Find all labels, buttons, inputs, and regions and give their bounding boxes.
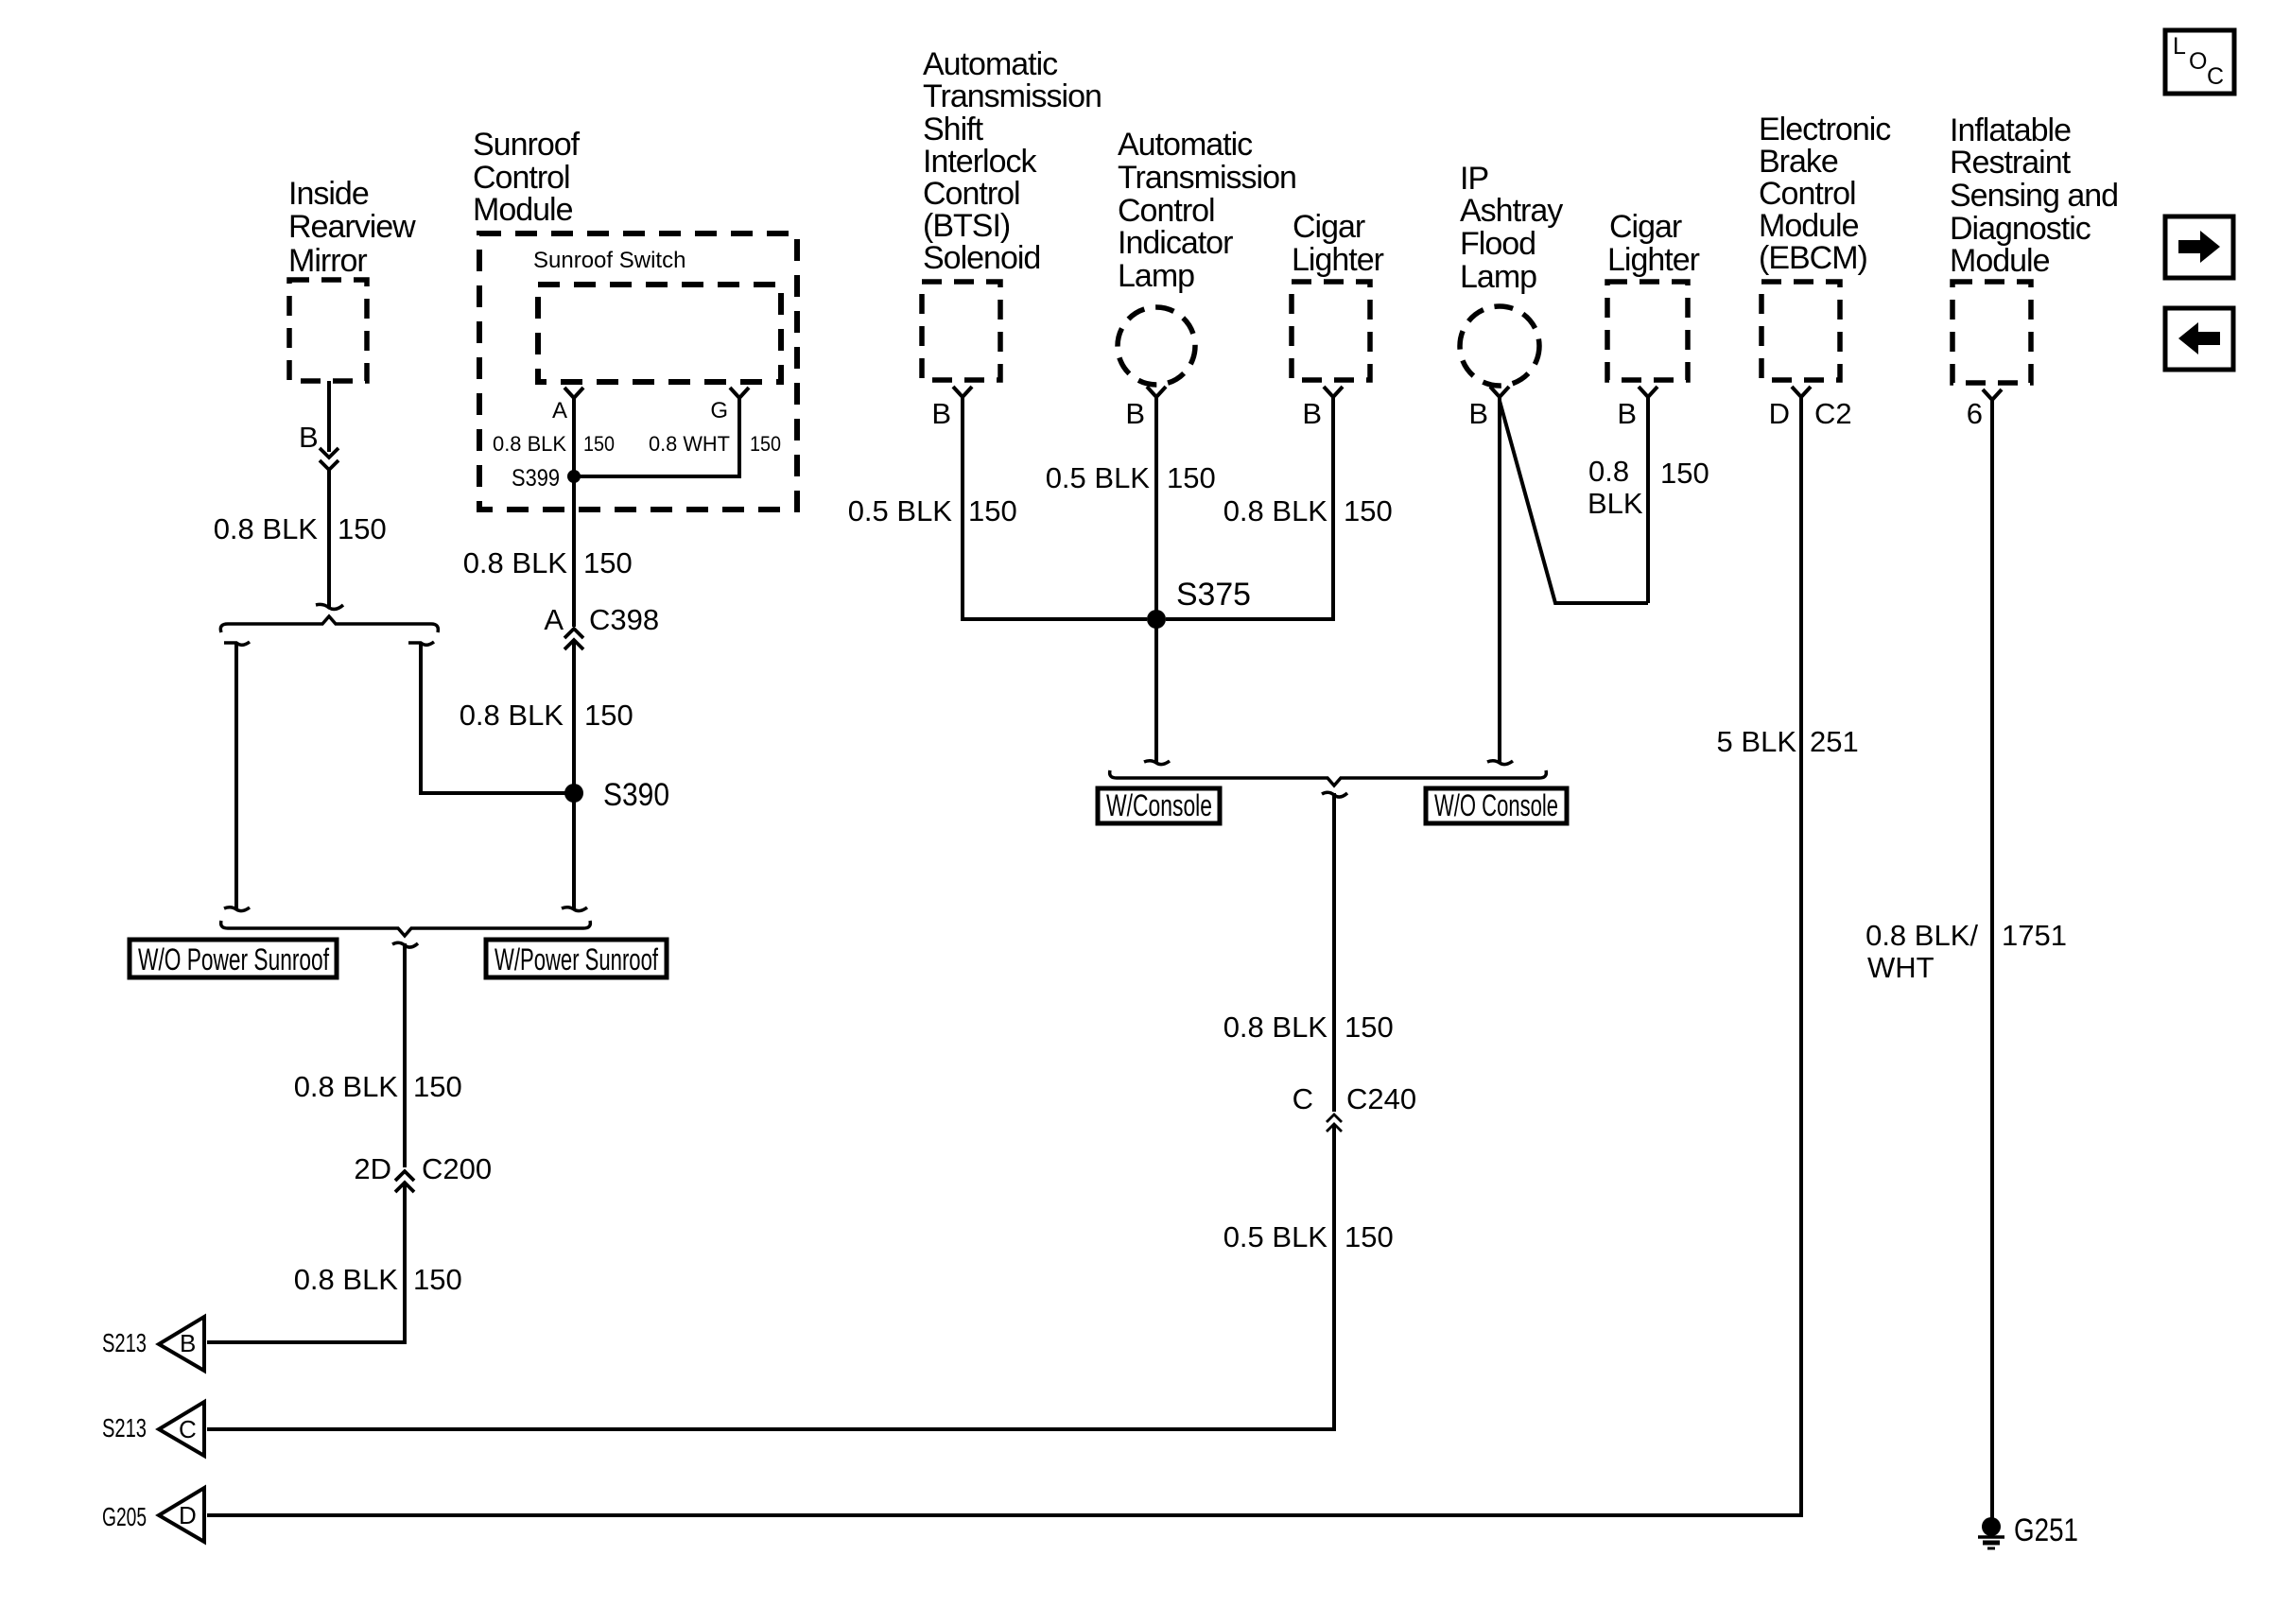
wire flood lamp down to console brace — [1487, 397, 1513, 765]
pin G (sunroof switch) — [710, 388, 749, 423]
wire label 5 BLK 251 — [1717, 725, 1859, 758]
svg-text:Inside: Inside — [288, 176, 369, 212]
svg-text:Sensing and: Sensing and — [1950, 178, 2118, 214]
svg-text:S375: S375 — [1176, 577, 1251, 613]
svg-text:Lamp: Lamp — [1118, 258, 1194, 294]
svg-text:0.8 BLK: 0.8 BLK — [294, 1263, 399, 1296]
wire diagonal from flood lamp pin to cigar2 wire — [1500, 401, 1648, 603]
svg-text:C: C — [179, 1415, 197, 1443]
svg-text:0.8 BLK: 0.8 BLK — [1223, 494, 1328, 527]
svg-text:Control: Control — [1118, 193, 1215, 229]
option label W/O Power Sunroof — [130, 940, 337, 977]
svg-text:O: O — [2189, 48, 2207, 75]
svg-text:0.8: 0.8 — [1588, 455, 1629, 488]
wire label 0.5 BLK 150 (lamp) — [1046, 461, 1216, 494]
svg-text:5 BLK: 5 BLK — [1717, 725, 1797, 758]
wire 0.8 BLK from pin A — [493, 398, 615, 510]
wire label 0.8 BLK 150 — [294, 1070, 462, 1103]
svg-text:Transmission: Transmission — [923, 78, 1102, 114]
wire label 0.8 BLK 150 — [294, 1263, 462, 1296]
svg-text:0.8 BLK/: 0.8 BLK/ — [1865, 919, 1978, 952]
connector C398 — [544, 603, 659, 649]
svg-text:A: A — [552, 398, 567, 423]
wire left branch (W/O Power Sunroof) — [224, 642, 250, 911]
component Automatic Transmission Control Indicator Lamp — [1118, 127, 1296, 385]
wire label 0.8 BLK 150 (above S390) — [460, 699, 633, 732]
svg-text:Sunroof Switch: Sunroof Switch — [533, 248, 685, 273]
svg-text:150: 150 — [413, 1070, 462, 1103]
ground G251 — [1978, 1512, 2078, 1548]
svg-text:150: 150 — [583, 546, 633, 579]
component Sunroof Switch — [533, 248, 781, 382]
svg-text:Lighter: Lighter — [1292, 242, 1384, 278]
svg-text:251: 251 — [1810, 725, 1859, 758]
wire label 0.8 BLK 150 — [1223, 1011, 1394, 1044]
svg-text:L: L — [2173, 33, 2186, 60]
svg-text:D: D — [1769, 397, 1790, 430]
wire label 0.8 BLK 150 (mirror) — [214, 512, 387, 545]
svg-text:0.8 BLK: 0.8 BLK — [493, 432, 566, 456]
svg-text:C: C — [1293, 1082, 1313, 1115]
svg-text:B: B — [180, 1329, 196, 1357]
wire cigar1 to S375 — [1166, 397, 1333, 619]
svg-text:C398: C398 — [589, 603, 659, 636]
svg-text:Automatic: Automatic — [1118, 127, 1253, 163]
off-page connector arrow (mirror B) — [320, 448, 338, 470]
pin D C2 (EBCM) — [1769, 387, 1852, 430]
svg-text:Transmission: Transmission — [1118, 160, 1296, 196]
svg-text:C200: C200 — [422, 1152, 492, 1185]
svg-text:C2: C2 — [1814, 397, 1852, 430]
wire right branch (to S390) — [408, 642, 572, 793]
wire from C398 to S390 and below — [562, 640, 587, 911]
svg-text:0.8 BLK: 0.8 BLK — [1223, 1011, 1328, 1044]
svg-text:150: 150 — [750, 432, 781, 456]
wire 0.8 WHT from pin G — [578, 398, 781, 476]
component Inflatable Restraint Sensing and Diagnostic Module — [1950, 112, 2118, 383]
wire label 0.8 BLK/WHT 1751 — [1865, 919, 2067, 984]
svg-text:Brake: Brake — [1759, 144, 1838, 180]
component IP Ashtray Flood Lamp — [1460, 161, 1563, 386]
svg-text:B: B — [299, 421, 319, 454]
svg-text:D: D — [179, 1501, 197, 1529]
svg-text:150: 150 — [1167, 461, 1216, 494]
svg-text:0.5 BLK: 0.5 BLK — [1046, 461, 1151, 494]
ground symbol G205 D — [102, 1488, 204, 1542]
svg-text:2D: 2D — [354, 1152, 391, 1185]
svg-text:Module: Module — [1950, 243, 2050, 279]
svg-text:S390: S390 — [603, 777, 669, 813]
pin B (indicator lamp) — [1125, 387, 1166, 430]
svg-text:Module: Module — [1759, 208, 1859, 244]
svg-text:1751: 1751 — [2002, 919, 2067, 952]
svg-text:Ashtray: Ashtray — [1460, 193, 1563, 229]
svg-text:S399: S399 — [512, 465, 560, 492]
wire label 0.8 BLK 150 (below sunroof box) — [463, 546, 633, 579]
svg-text:B: B — [1125, 397, 1145, 430]
svg-text:150: 150 — [1344, 494, 1393, 527]
svg-text:B: B — [931, 397, 951, 430]
wire S375 down to console brace — [1144, 619, 1170, 765]
wire EBCM to G205 D — [207, 397, 1801, 1515]
svg-text:Lamp: Lamp — [1460, 259, 1536, 295]
wire BTSI to S375 — [963, 397, 1147, 619]
wire from C200 to S213 B — [207, 1182, 405, 1342]
svg-text:150: 150 — [584, 699, 633, 732]
component Cigar Lighter (no console) — [1607, 209, 1700, 380]
svg-text:Rearview: Rearview — [288, 209, 416, 245]
splice symbol S213 C — [102, 1402, 204, 1456]
svg-text:G251: G251 — [2014, 1512, 2078, 1548]
svg-text:C: C — [2207, 63, 2224, 90]
svg-text:Control: Control — [923, 176, 1020, 212]
splice S399 — [512, 465, 581, 492]
svg-text:B: B — [1468, 397, 1488, 430]
wire inflatable module to G251 — [1990, 400, 1994, 1519]
arrow box left — [2165, 308, 2233, 370]
svg-text:A: A — [544, 603, 564, 636]
svg-text:150: 150 — [968, 494, 1017, 527]
svg-text:Control: Control — [1759, 176, 1856, 212]
pin B (BTSI) — [931, 387, 972, 430]
connector C200 — [354, 1152, 492, 1192]
svg-text:W/Console: W/Console — [1106, 788, 1212, 822]
wire label 0.5 BLK 150 (BTSI) — [848, 494, 1017, 527]
svg-text:Diagnostic: Diagnostic — [1950, 211, 2091, 247]
connector C240 — [1293, 1082, 1417, 1132]
svg-text:B: B — [1302, 397, 1322, 430]
svg-text:6: 6 — [1967, 397, 1983, 430]
svg-text:0.8 BLK: 0.8 BLK — [294, 1070, 399, 1103]
option label W/Console — [1098, 788, 1220, 823]
option label W/O Console — [1426, 788, 1567, 823]
wire mirror B upper segment — [327, 381, 331, 452]
arrow box right — [2165, 216, 2233, 278]
svg-text:Module: Module — [473, 192, 573, 228]
wire mirror B lower segment with end hook — [316, 468, 343, 609]
svg-text:S213: S213 — [102, 1413, 147, 1443]
wire lamp to S375 — [1154, 397, 1158, 619]
splice symbol S213 B — [102, 1317, 204, 1371]
wire from S399 through box bottom — [572, 476, 576, 627]
svg-text:150: 150 — [1660, 457, 1709, 490]
svg-text:0.8 BLK: 0.8 BLK — [460, 699, 564, 732]
svg-text:C240: C240 — [1346, 1082, 1416, 1115]
wire console brace down to C240 — [1332, 793, 1336, 1112]
svg-text:Indicator: Indicator — [1118, 225, 1233, 261]
svg-text:(EBCM): (EBCM) — [1759, 240, 1867, 276]
svg-text:Mirror: Mirror — [288, 243, 367, 279]
wire from C240 to S213 C — [207, 1125, 1334, 1429]
brace split below mirror — [220, 616, 438, 632]
svg-text:0.8 BLK: 0.8 BLK — [214, 512, 319, 545]
svg-text:150: 150 — [1345, 1011, 1394, 1044]
component Electronic Brake Control Module (EBCM) — [1759, 112, 1891, 380]
pin A (sunroof switch) — [552, 388, 583, 423]
splice S375 — [1147, 577, 1251, 629]
svg-text:150: 150 — [338, 512, 387, 545]
svg-text:0.5 BLK: 0.5 BLK — [848, 494, 953, 527]
svg-text:(BTSI): (BTSI) — [923, 208, 1010, 244]
svg-text:150: 150 — [1345, 1220, 1394, 1253]
svg-text:Inflatable: Inflatable — [1950, 112, 2071, 148]
LOC reference box — [2165, 30, 2234, 94]
pin B (flood lamp) — [1468, 387, 1509, 430]
brace merge (power sunroof options) — [221, 921, 591, 947]
svg-text:Cigar: Cigar — [1293, 209, 1365, 245]
svg-text:G205: G205 — [102, 1502, 147, 1531]
pin 6 (inflatable restraint module) — [1967, 389, 2002, 430]
wire cigar2 down — [1646, 397, 1650, 603]
svg-text:WHT: WHT — [1867, 951, 1935, 984]
brace merge (console options) — [1110, 770, 1547, 797]
svg-text:Lighter: Lighter — [1607, 242, 1700, 278]
svg-text:IP: IP — [1460, 161, 1488, 197]
wire label 0.8 BLK 150 (cigar1) — [1223, 494, 1393, 527]
svg-text:B: B — [1617, 397, 1637, 430]
svg-text:W/O Power Sunroof: W/O Power Sunroof — [138, 942, 329, 976]
svg-text:Solenoid: Solenoid — [923, 240, 1040, 276]
pin B (mirror) — [299, 421, 319, 454]
svg-text:0.5 BLK: 0.5 BLK — [1223, 1220, 1328, 1253]
component Cigar Lighter (console) — [1292, 209, 1384, 380]
svg-text:Automatic: Automatic — [923, 46, 1058, 82]
wire from brace down to C200 — [403, 943, 407, 1167]
pin B (cigar lighter 1) — [1302, 387, 1343, 430]
svg-text:Cigar: Cigar — [1609, 209, 1682, 245]
svg-text:Control: Control — [473, 160, 570, 196]
wire label 0.5 BLK 150 — [1223, 1220, 1394, 1253]
svg-text:Sunroof: Sunroof — [473, 127, 581, 163]
option label W/Power Sunroof — [486, 940, 667, 977]
component Sunroof Control Module — [473, 127, 797, 510]
svg-text:0.8 WHT: 0.8 WHT — [649, 432, 730, 456]
svg-text:150: 150 — [583, 432, 615, 456]
svg-text:150: 150 — [413, 1263, 462, 1296]
svg-text:Interlock: Interlock — [923, 144, 1037, 180]
wire label 0.8 BLK 150 (cigar2) — [1588, 455, 1709, 520]
svg-text:Restraint: Restraint — [1950, 145, 2072, 181]
svg-text:Electronic: Electronic — [1759, 112, 1891, 147]
component Inside Rearview Mirror — [288, 176, 416, 381]
svg-text:G: G — [710, 398, 728, 423]
component Automatic Transmission Shift Interlock Control (BTSI) Solenoid — [922, 46, 1102, 380]
pin B (cigar lighter 2) — [1617, 387, 1657, 430]
splice S390 — [564, 777, 669, 813]
svg-text:Shift: Shift — [923, 112, 984, 147]
svg-text:S213: S213 — [102, 1328, 147, 1357]
svg-text:W/Power Sunroof: W/Power Sunroof — [495, 942, 658, 976]
svg-text:0.8 BLK: 0.8 BLK — [463, 546, 568, 579]
svg-text:W/O Console: W/O Console — [1434, 788, 1558, 822]
svg-text:BLK: BLK — [1588, 487, 1643, 520]
svg-text:Flood: Flood — [1460, 226, 1536, 262]
